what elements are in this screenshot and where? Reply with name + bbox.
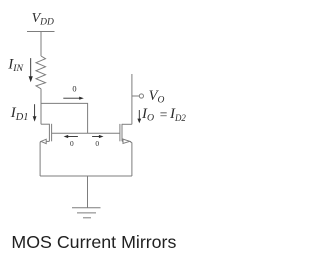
svg-text:0: 0 <box>72 85 76 94</box>
svg-text:VO: VO <box>149 88 165 106</box>
svg-text:ID1: ID1 <box>10 105 29 123</box>
svg-text:VDD: VDD <box>32 11 54 27</box>
svg-text:0: 0 <box>95 139 99 148</box>
svg-text:=: = <box>160 107 168 122</box>
svg-text:0: 0 <box>70 139 74 148</box>
svg-text:MOS Current Mirrors: MOS Current Mirrors <box>11 232 176 252</box>
svg-text:ID2: ID2 <box>169 106 186 123</box>
svg-text:IIN: IIN <box>7 57 23 75</box>
svg-text:IO: IO <box>141 106 154 124</box>
